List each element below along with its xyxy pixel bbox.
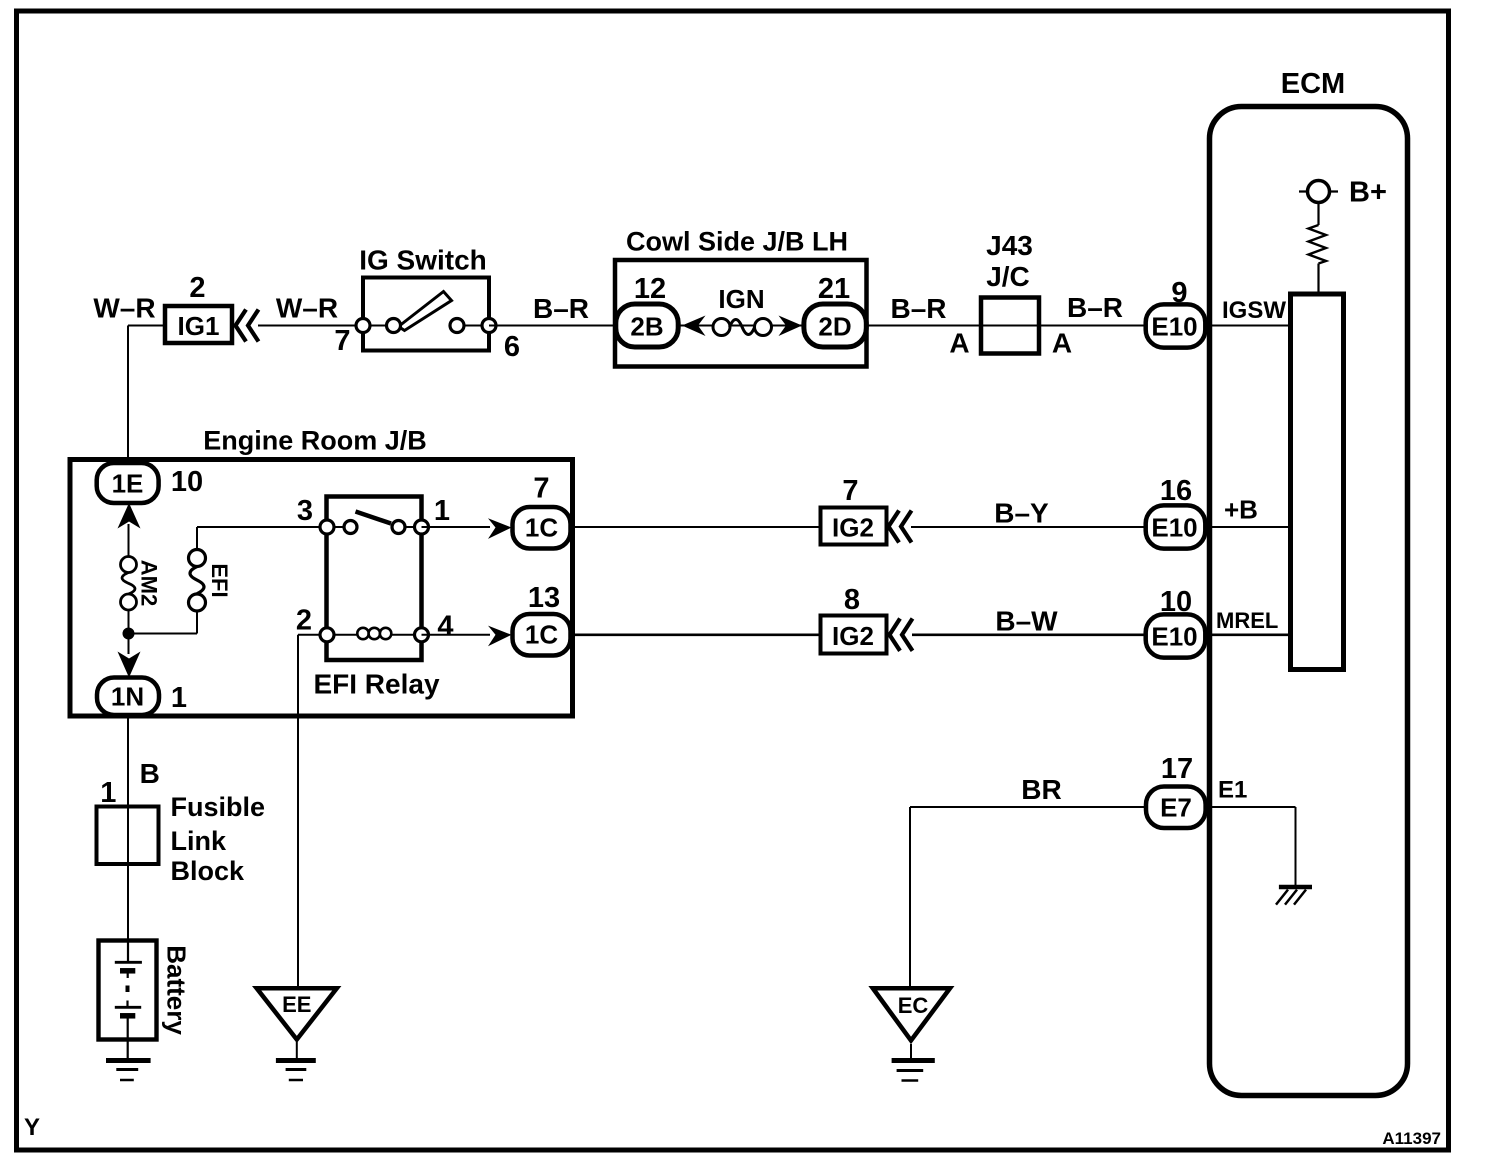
fusible link block box [97, 807, 159, 865]
connector IG2 row3 [821, 616, 887, 654]
ECM internal block [1291, 294, 1344, 670]
svg-text:1: 1 [100, 777, 116, 809]
connector 2B [616, 304, 678, 347]
wire +B inside ECM [1205, 526, 1291, 528]
svg-text:AM2: AM2 [137, 560, 162, 606]
svg-text:J43: J43 [986, 230, 1033, 261]
EE ground symbol [296, 1042, 298, 1058]
svg-text:1E: 1E [112, 469, 144, 499]
wire B-Y 1C to IG2 [571, 526, 821, 528]
wire IGSW inside ECM [1205, 325, 1291, 327]
svg-text:W–R: W–R [276, 293, 338, 324]
wire down to EE ground [297, 635, 299, 989]
svg-text:B–R: B–R [1067, 292, 1123, 323]
wire MREL inside ECM [1205, 633, 1291, 636]
svg-text:1N: 1N [111, 682, 144, 712]
svg-text:17: 17 [1161, 753, 1193, 785]
wire W-R node to connector IG1 [128, 325, 164, 327]
arrow up to 1E [118, 503, 141, 529]
svg-text:A: A [1052, 328, 1072, 359]
svg-text:IG1: IG1 [178, 311, 220, 341]
svg-text:2: 2 [189, 272, 205, 304]
wire B+ to resistor [1317, 203, 1319, 225]
svg-text:E10: E10 [1151, 312, 1197, 342]
svg-text:BR: BR [1021, 774, 1061, 805]
wire AM2 to node [128, 610, 130, 630]
fuse IGN [713, 319, 730, 336]
wire through J43 [981, 325, 1146, 327]
connector IG1 [165, 306, 232, 343]
svg-text:MREL: MREL [1216, 608, 1278, 633]
svg-text:6: 6 [504, 331, 520, 363]
svg-text:EE: EE [282, 992, 311, 1017]
wire node down to arrow [128, 634, 130, 655]
battery cells [127, 940, 129, 961]
wire BR down to EC ground [909, 807, 911, 989]
node junction dot [123, 628, 135, 640]
svg-text:2B: 2B [630, 312, 663, 342]
wire arrow to fuse AM2 [128, 524, 130, 557]
relay terminal 4 [415, 628, 429, 642]
chassis ground E1 [1279, 885, 1312, 890]
svg-text:A11397: A11397 [1382, 1129, 1441, 1148]
connector 1E [97, 463, 159, 503]
wire node to fuse EFI [129, 633, 198, 635]
connector IG2 row2 [821, 508, 887, 545]
relay coil [357, 628, 368, 639]
svg-text:+B: +B [1224, 495, 1258, 525]
relay switch blade [356, 512, 392, 524]
svg-text:B–R: B–R [533, 293, 589, 324]
svg-text:B+: B+ [1349, 177, 1387, 209]
contact circle right [450, 319, 464, 333]
EC ground symbol [910, 1044, 912, 1058]
svg-text:IGSW: IGSW [1222, 297, 1286, 324]
Cowl Side J/B box [615, 260, 867, 367]
svg-text:J/C: J/C [986, 261, 1030, 292]
battery box [99, 941, 157, 1040]
wire E1 inside ECM [1205, 806, 1296, 808]
svg-text:Block: Block [171, 856, 246, 886]
connector arrows at IG1 [236, 310, 247, 342]
connector E10 row3 [1146, 614, 1206, 657]
svg-text:Fusible: Fusible [171, 792, 266, 822]
svg-text:1: 1 [171, 682, 187, 714]
svg-text:10: 10 [171, 466, 203, 498]
wire B-R cowl to J43 [866, 325, 981, 327]
arrow at 2B [682, 316, 706, 337]
svg-text:1C: 1C [525, 620, 558, 650]
svg-text:1: 1 [434, 495, 450, 527]
Engine Room J/B box [70, 460, 573, 717]
wire contact to terminal6 [457, 325, 489, 327]
svg-text:B–W: B–W [995, 606, 1058, 637]
svg-text:EFI: EFI [207, 563, 232, 597]
wire BR horizontal to E7 [910, 806, 1146, 808]
EC ground triangle [873, 988, 950, 1040]
IG switch lever [399, 292, 452, 331]
connector E7 [1146, 787, 1206, 829]
svg-text:E1: E1 [1218, 777, 1247, 804]
IG switch box [363, 278, 489, 351]
svg-text:E10: E10 [1151, 622, 1197, 652]
connector 1C row3 [513, 614, 571, 656]
wire through fusible link [127, 807, 129, 942]
svg-text:16: 16 [1160, 475, 1192, 507]
svg-text:IG2: IG2 [832, 621, 874, 651]
wire terminal7 to contact [363, 325, 393, 327]
relay terminal 3 [320, 520, 334, 534]
connector 1N [97, 678, 159, 716]
connector E10 row2 [1146, 505, 1206, 548]
svg-text:Link: Link [171, 826, 227, 856]
svg-text:B–Y: B–Y [994, 498, 1049, 529]
connector E10 row1 [1146, 304, 1206, 347]
EE ground triangle [257, 988, 337, 1039]
svg-text:3: 3 [297, 495, 313, 527]
relay contact circle left [344, 521, 357, 534]
svg-text:Cowl Side J/B LH: Cowl Side J/B LH [626, 227, 848, 257]
wire W-R vertical to 1E [127, 326, 129, 465]
svg-text:8: 8 [844, 584, 860, 616]
relay terminal 1 [415, 520, 429, 534]
connector arrows at IG2 row2 [889, 511, 900, 543]
relay contact circle right [392, 521, 405, 534]
arrow down to 1N [118, 652, 141, 678]
fuse EFI [189, 594, 206, 611]
connector 1C row2 [513, 507, 571, 549]
svg-text:B: B [140, 758, 160, 789]
arrow at 2D [779, 316, 803, 337]
svg-text:W–R: W–R [93, 293, 155, 324]
svg-text:IG Switch: IG Switch [359, 245, 487, 276]
terminal 7 circle [356, 319, 370, 333]
contact circle left [387, 319, 401, 333]
svg-text:E10: E10 [1151, 513, 1197, 543]
wire relay pin2 left [298, 634, 327, 636]
svg-text:Engine Room J/B: Engine Room J/B [203, 426, 427, 456]
svg-text:2: 2 [296, 605, 312, 637]
svg-text:Battery: Battery [162, 945, 192, 1035]
svg-text:7: 7 [533, 473, 549, 505]
svg-text:4: 4 [437, 611, 453, 643]
battery ground symbol [106, 1058, 151, 1063]
junction connector J43 box [981, 298, 1039, 354]
wire relay coil row [327, 634, 422, 636]
connector arrows at IG2 row3 [890, 619, 901, 651]
svg-text:B–R: B–R [890, 293, 946, 324]
svg-text:IGN: IGN [718, 284, 764, 314]
terminal B+ [1299, 190, 1338, 192]
wire inside cowl J/B [647, 325, 835, 327]
wire resistor to internal block [1317, 264, 1319, 295]
wire EFI to relay pin3 [196, 527, 198, 550]
wire B 1N to fusible link [127, 715, 129, 807]
wire relay contacts top row [327, 526, 350, 528]
svg-text:EC: EC [898, 993, 929, 1018]
svg-text:1C: 1C [525, 513, 558, 543]
resistor inside ECM [1309, 225, 1327, 264]
wire relay pin1 to 1C [422, 526, 491, 528]
svg-text:E7: E7 [1160, 793, 1192, 823]
svg-text:7: 7 [334, 325, 350, 357]
ECM case [1210, 107, 1408, 1096]
connector 2D [804, 304, 866, 347]
wire relay pin4 to 1C [422, 634, 491, 636]
terminal 6 circle [482, 319, 496, 333]
svg-text:7: 7 [842, 475, 858, 507]
wire B-R switch to cowl J/B [489, 325, 617, 327]
svg-text:21: 21 [818, 273, 850, 305]
svg-text:EFI Relay: EFI Relay [313, 669, 439, 700]
svg-text:Y: Y [24, 1114, 40, 1141]
fuse AM2 [121, 557, 137, 573]
arrow at 1C row3 [488, 626, 512, 647]
svg-text:12: 12 [634, 273, 666, 305]
wire B-Y IG2 to E10 [911, 526, 1146, 528]
EFI relay box [327, 497, 422, 661]
svg-text:ECM: ECM [1281, 68, 1345, 100]
wire W-R IG1 to IG switch [258, 325, 364, 327]
svg-text:IG2: IG2 [832, 513, 874, 543]
relay terminal 2 [320, 628, 334, 642]
arrow at 1C row2 [488, 518, 512, 539]
svg-text:A: A [949, 328, 969, 359]
svg-text:2D: 2D [818, 312, 851, 342]
wire B-W 1C to IG2 [571, 633, 821, 636]
wire B-W IG2 to E10 [912, 633, 1146, 636]
svg-text:13: 13 [528, 582, 560, 614]
